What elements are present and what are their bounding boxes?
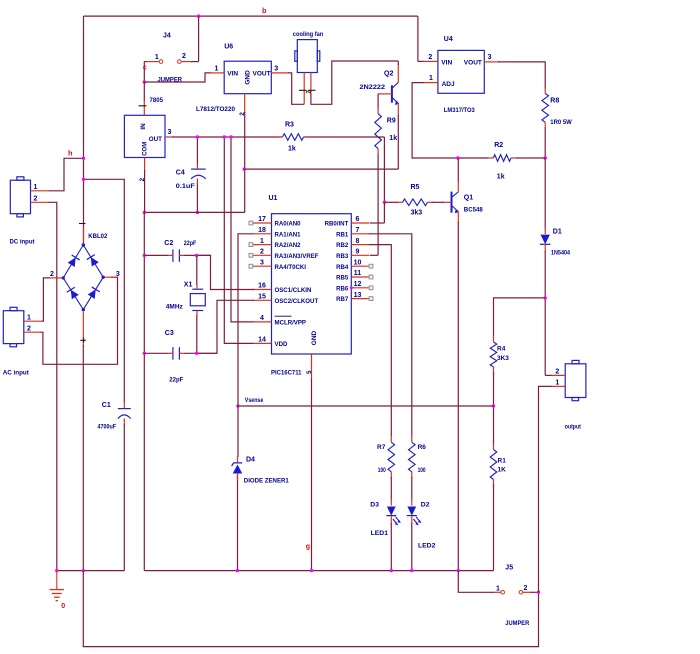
label JUMPER J4 [158, 77, 183, 84]
svg-text:Q1: Q1 [464, 195, 473, 202]
wire 7805 COM down gnd vertical [143, 170, 145, 571]
node junction rail D2 [410, 569, 413, 572]
label R9 [387, 118, 396, 125]
wire DC pin1 to h node [49, 158, 84, 191]
node junction C4 gnd [196, 211, 199, 214]
node junction J4/U6/7805 [143, 80, 146, 83]
pin stub C4 top [196, 163, 198, 169]
label PIC16C711 [271, 370, 302, 377]
pin stub R5 left [397, 201, 402, 203]
pin 6 RB0/INT U1 [325, 216, 370, 227]
resistor R7 [388, 442, 395, 472]
svg-text:GND: GND [311, 330, 318, 345]
wire C4 bottom to gnd link [196, 184, 198, 213]
label DC input [10, 239, 36, 246]
svg-text:Vsense: Vsense [245, 397, 264, 404]
pin stub D2 bottom [411, 516, 413, 524]
label J5 pin 1 [496, 586, 500, 593]
label C4 [176, 169, 185, 176]
svg-text:D4: D4 [246, 456, 255, 463]
svg-text:2: 2 [182, 53, 186, 60]
svg-text:R6: R6 [418, 444, 427, 451]
label R5 value 3k3 [411, 209, 423, 216]
pin stub R4 top [493, 336, 495, 342]
svg-text:COM: COM [143, 142, 149, 156]
label 1N5404 [551, 249, 570, 256]
svg-text:cooling fan: cooling fan [293, 31, 324, 38]
svg-text:1: 1 [260, 238, 264, 245]
pin 14 VDD U1 [253, 337, 288, 348]
led D3 LED1 [386, 507, 401, 526]
svg-text:8: 8 [356, 238, 360, 245]
svg-text:R5: R5 [411, 184, 420, 191]
label 7805 pin 3 [168, 129, 172, 136]
label output pin 1 [555, 380, 559, 387]
node junction C2/X1/OSC1 [195, 254, 198, 257]
pin 18 RA1/AN1 U1 [253, 227, 301, 238]
pin stub U6 pin1 [211, 72, 225, 74]
svg-text:R8: R8 [550, 98, 559, 105]
wire R1 bottom to rail [493, 484, 495, 571]
wire R4 to R1 [493, 372, 495, 445]
node junction Vsense left [236, 404, 239, 407]
svg-text:17: 17 [258, 216, 266, 223]
label bridge pin 3 [116, 271, 120, 278]
diode zener D4 [232, 463, 243, 474]
wire DC pin2 down [49, 202, 57, 570]
wire U4 VIN riser [417, 16, 419, 61]
wire Q2 emitter riser [397, 115, 399, 169]
label R3 value 1k [288, 145, 296, 152]
svg-text:7805: 7805 [150, 97, 164, 104]
svg-text:12: 12 [354, 281, 362, 288]
label DC pin 2 [34, 196, 38, 203]
pin stub R6 top [411, 436, 413, 442]
wire U4 ADJ down to R2 row [412, 83, 458, 158]
wire OSC1 to C2/X1 [195, 255, 254, 289]
label U4 ADJ [442, 81, 455, 88]
pin 3 RA4/T0CKI U1 [249, 259, 306, 270]
node junction VDD rail [223, 135, 226, 138]
label R9 value 1k [389, 135, 397, 142]
label R7 value 100 [378, 467, 386, 474]
regulator U5 7805 box [124, 115, 165, 157]
svg-text:VOUT: VOUT [253, 71, 271, 78]
label R4 value 3K3 [497, 355, 509, 362]
wire R3 to node A riser [383, 137, 385, 202]
pin stub output pin2 [552, 374, 566, 376]
wire MCLR to +5 rail [231, 137, 254, 322]
diode D1 1N5404 [540, 235, 551, 245]
label J5 pin 2 [524, 585, 528, 592]
pin stub bridge top [83, 228, 85, 243]
node junction ADJ/R2/Q1 [456, 156, 459, 159]
pin 9 RB3 U1 [336, 249, 369, 260]
wire Q1 collector riser [457, 158, 459, 182]
pin 15 OSC2/CLKOUT U1 [253, 294, 319, 305]
svg-text:RB2: RB2 [336, 242, 349, 249]
label 7805 OUT [149, 136, 162, 143]
svg-text:2N2222: 2N2222 [360, 84, 386, 91]
svg-text:R3: R3 [285, 122, 294, 129]
resistor R4 [490, 342, 497, 367]
label U6 pin 3 [274, 65, 278, 72]
label Q2 [384, 71, 393, 78]
svg-text:RB7: RB7 [336, 296, 349, 303]
pin stub Q2 base [379, 93, 392, 95]
svg-text:DC input: DC input [10, 239, 36, 246]
node Vsense junction R4/R1 [492, 404, 495, 407]
pin stub C4 bottom [196, 179, 198, 185]
wire Q2 collector riser [397, 61, 399, 65]
resistor R1 [490, 450, 497, 480]
label AC pin 2 [27, 326, 31, 333]
label U6 pin2 rotated [239, 112, 246, 116]
wire J4 pin2 riser [198, 16, 200, 62]
label J4 pin 1 [155, 54, 159, 61]
wire ground rail left segment [57, 570, 125, 572]
svg-text:1: 1 [155, 54, 159, 61]
pin 5 GND U1 [306, 354, 313, 380]
svg-text:RA3/AN3/VREF: RA3/AN3/VREF [275, 253, 319, 260]
pin stub D4 top [237, 457, 239, 463]
pin stub C3 left [168, 352, 173, 354]
pin stub Q1 base [444, 201, 452, 203]
label R2 value 1k [497, 173, 505, 180]
pic U1 box [272, 214, 352, 354]
svg-text:C4: C4 [176, 169, 185, 176]
pin 16 OSC1/CLKIN U1 [253, 283, 312, 294]
svg-text:VIN: VIN [227, 71, 238, 78]
pin stub fan pin2 [310, 73, 312, 96]
pin stub C1 bottom [123, 418, 125, 425]
svg-text:2: 2 [428, 54, 432, 61]
svg-text:2: 2 [524, 585, 528, 592]
pin stub fan pin1 [303, 73, 305, 105]
svg-text:C2: C2 [164, 240, 173, 247]
pin stub Q1 collector [457, 181, 459, 192]
pin stub AC pin2 [24, 331, 41, 333]
label U6 [224, 44, 233, 51]
wire C4 top to rail [196, 137, 198, 164]
label R5 [411, 184, 420, 191]
wire 7805 OUT +5V rail [172, 136, 384, 138]
wire C1 branch [84, 179, 125, 402]
svg-text:1: 1 [429, 75, 433, 82]
pin stub D4 bottom [237, 474, 239, 480]
wire fan pin2 to Q2 collector [311, 61, 398, 104]
pin stub bridge bottom [82, 312, 84, 347]
wire branch to R4 [494, 298, 546, 337]
pin stub D3 bottom [390, 516, 392, 524]
svg-text:output: output [565, 423, 582, 430]
wire D1 to output pin2 [545, 251, 552, 375]
label cooling fan [293, 31, 324, 38]
bridge rectifier KBL02 [62, 243, 105, 311]
label 7805 pin2 rotated [139, 178, 146, 182]
svg-text:OSC2/CLKOUT: OSC2/CLKOUT [275, 298, 319, 305]
label U1 [269, 195, 278, 202]
svg-text:1N5404: 1N5404 [551, 249, 570, 256]
svg-text:4700uF: 4700uF [98, 423, 117, 430]
svg-text:OSC1/CLKIN: OSC1/CLKIN [275, 287, 312, 294]
wire gnd link horizontal [144, 211, 244, 213]
pin stub U6 pin2 GND [244, 94, 246, 113]
label X1 [184, 281, 193, 288]
svg-text:C1: C1 [102, 402, 111, 409]
svg-text:VOUT: VOUT [464, 60, 482, 67]
pin stub D2 top [411, 499, 413, 506]
node junction C3/X1/OSC2 [195, 352, 198, 355]
svg-text:1: 1 [496, 586, 500, 593]
svg-text:U6: U6 [224, 44, 233, 51]
node c [143, 65, 147, 72]
label R7 [377, 444, 386, 451]
capacitor C2 [173, 249, 180, 262]
label LED1 [371, 530, 389, 537]
capacitor C1 4700uF [118, 409, 131, 419]
label C2 [164, 240, 173, 247]
pin stub bridge right [105, 276, 116, 278]
svg-text:U1: U1 [269, 195, 278, 202]
svg-text:KBL02: KBL02 [88, 233, 107, 240]
transistor Q2 [392, 82, 399, 105]
svg-text:10: 10 [354, 259, 362, 266]
label J4 pin 2 [182, 53, 186, 60]
label DIODE ZENER1 [244, 478, 289, 485]
label fan pin marks [299, 90, 316, 94]
svg-text:MCLR/VPP: MCLR/VPP [275, 320, 307, 327]
label 7805 IN [140, 123, 147, 130]
svg-text:9: 9 [356, 249, 360, 256]
wire C3 left [144, 352, 168, 354]
label C3 value 22pF [169, 376, 183, 383]
label KBL02 [88, 233, 107, 240]
label U6 GND rotated [244, 70, 251, 85]
svg-text:h: h [68, 149, 73, 158]
wire J5 branch [458, 571, 495, 593]
label 7805 [150, 97, 164, 104]
pin stub R8 bottom [544, 122, 546, 128]
wire VDD to +5 rail [224, 137, 253, 343]
pin stub R9 top [377, 108, 379, 114]
svg-text:R1: R1 [498, 457, 507, 464]
pin stub 7805 pin2 COM [144, 158, 146, 172]
pin stub Q2 collector [397, 64, 399, 82]
svg-text:3K3: 3K3 [497, 355, 509, 362]
label U1 GND rotated [311, 330, 318, 345]
svg-text:R4: R4 [497, 346, 506, 353]
pin stub R3 right [304, 136, 310, 138]
wire output pin1 riser [539, 386, 553, 592]
svg-text:ADJ: ADJ [442, 81, 455, 88]
label 2N2222 [360, 84, 386, 91]
label J5 name [505, 564, 513, 571]
wire R7 to D3 [390, 477, 392, 500]
label Vsense [245, 397, 264, 404]
wire U4 VOUT to R8 [498, 62, 545, 89]
svg-text:RA4/T0CKI: RA4/T0CKI [275, 264, 307, 271]
node junction rail DC2 [55, 569, 58, 572]
node junction rail J5 [457, 569, 460, 572]
capacitor C3 [173, 347, 180, 360]
transistor Q1 [452, 192, 459, 214]
svg-text:PIC16C711: PIC16C711 [271, 370, 302, 377]
label U4 VIN [441, 60, 452, 67]
svg-text:AC input: AC input [3, 370, 30, 377]
node junction C3 left [143, 352, 146, 355]
label U6 pin 1 [215, 65, 219, 72]
pin 8 RB2 U1 [336, 238, 369, 249]
label LM317/TO3 [444, 107, 475, 114]
cooling fan body [295, 40, 320, 73]
node junction top rail / J4 [197, 14, 200, 17]
svg-text:3: 3 [488, 54, 492, 61]
svg-text:2: 2 [260, 249, 264, 256]
svg-text:L7812/TO220: L7812/TO220 [196, 106, 235, 113]
wire U6 GND down [244, 112, 246, 212]
wire RB1 to R6 [369, 234, 412, 437]
node junction C4 rail [196, 135, 199, 138]
svg-text:3k3: 3k3 [411, 209, 423, 216]
pin stub C2 right [179, 254, 185, 256]
svg-text:R2: R2 [494, 142, 503, 149]
resistor R8 [542, 93, 549, 122]
svg-text:4MHz: 4MHz [166, 303, 184, 310]
svg-text:IN: IN [140, 123, 147, 130]
led D2 LED2 [407, 507, 422, 526]
label 7805 pin1 rotated [139, 105, 147, 107]
label R8 value 1R0 5W [550, 119, 572, 126]
svg-text:c: c [143, 65, 147, 72]
svg-text:OUT: OUT [149, 136, 162, 143]
pin stub U4 pin1 ADJ [423, 82, 438, 84]
svg-text:GND: GND [244, 70, 251, 85]
pin stub U6 pin3 [271, 72, 289, 74]
resistor R5 [403, 199, 428, 206]
svg-text:22pF: 22pF [184, 240, 197, 247]
wire R2 wires [458, 157, 545, 159]
node junction rail PIC gnd [310, 569, 313, 572]
pin stub U4 pin3 VOUT [484, 61, 499, 63]
label C3 [165, 330, 174, 337]
svg-text:D1: D1 [553, 229, 562, 236]
svg-text:100: 100 [418, 467, 426, 474]
svg-text:RA1/AN1: RA1/AN1 [275, 231, 302, 238]
node 0 ground label [61, 603, 65, 610]
wire C2 right to X1 [185, 254, 211, 256]
label bridge pin1 rotated [79, 223, 86, 225]
node A junction R3/R5/RB0 [383, 201, 386, 204]
wire Q1 emitter down [457, 222, 459, 571]
label U4 VOUT [464, 60, 482, 67]
node junction C2 left [143, 254, 146, 257]
svg-text:RB3: RB3 [336, 253, 349, 260]
label bridge pin4 rotated [80, 338, 86, 343]
pin stub D1 top [544, 228, 546, 234]
wire AC pin1 to bridge pin2 [42, 278, 51, 321]
connector output [565, 360, 586, 400]
svg-text:LED1: LED1 [371, 530, 389, 537]
pin stub bridge left [50, 277, 62, 279]
label R3 [285, 122, 294, 129]
pin 10 RB4 U1 [336, 259, 373, 270]
svg-text:VDD: VDD [275, 341, 288, 348]
svg-text:1: 1 [34, 184, 38, 191]
svg-text:1k: 1k [497, 173, 505, 180]
pin stub R7 bottom [390, 472, 392, 478]
wire left +V riser to bridge [83, 16, 85, 243]
node junction MCLR rail [229, 135, 232, 138]
svg-text:RA0/AN0: RA0/AN0 [275, 221, 302, 228]
wire OSC2 to C3/X1 [195, 300, 254, 353]
svg-text:14: 14 [258, 337, 266, 344]
svg-text:7: 7 [356, 227, 360, 234]
pin stub output pin1 [552, 385, 566, 387]
pin stub DC pin1 [31, 190, 50, 192]
pin stub R2 right [511, 157, 517, 159]
svg-text:16: 16 [258, 283, 266, 290]
svg-text:4: 4 [260, 315, 264, 322]
wire X1 bottom riser [196, 315, 198, 353]
label U4 [444, 36, 453, 43]
resistor R3 [283, 134, 304, 141]
node h [68, 149, 73, 158]
pin stub R9 bottom [377, 149, 379, 155]
wire Vsense horizontal [238, 405, 494, 407]
wire node B to D1 [544, 158, 546, 229]
label DC pin 1 [34, 184, 38, 191]
pin 17 RA0/AN0 U1 [249, 216, 301, 227]
svg-text:3: 3 [168, 129, 172, 136]
pin 13 RB7 U1 [336, 292, 373, 303]
regulator U6 L7812 box [224, 61, 271, 93]
label output pin 2 [555, 368, 559, 375]
svg-text:2: 2 [555, 368, 559, 375]
svg-text:1: 1 [27, 314, 31, 321]
svg-text:15: 15 [258, 294, 266, 301]
svg-text:BC548: BC548 [464, 207, 483, 214]
label C1 [102, 402, 111, 409]
pin stub Q1 emitter [457, 212, 459, 223]
label R2 [494, 142, 503, 149]
label D2 [421, 501, 430, 508]
crystal X1 [190, 289, 205, 310]
resistor R2 [493, 155, 511, 162]
wire Q2 base to R9 [378, 94, 379, 109]
pin stub X1 top [196, 285, 198, 290]
svg-text:0.1uF: 0.1uF [176, 183, 195, 190]
capacitor C4 [191, 169, 206, 179]
svg-text:LM317/TO3: LM317/TO3 [444, 107, 475, 114]
svg-text:3: 3 [274, 65, 278, 72]
node junction D1/R4 branch [544, 296, 547, 299]
pin 4 MCLR/VPP U1 [253, 315, 306, 326]
svg-text:1R0 5W: 1R0 5W [550, 119, 572, 126]
svg-text:1: 1 [555, 380, 559, 387]
pin 1 RA2/AN2 U1 [249, 238, 301, 249]
wire R9 to PIC RB3 [370, 154, 378, 255]
svg-text:RB5: RB5 [336, 275, 349, 282]
wire D4 riser [237, 406, 240, 571]
svg-text:1: 1 [215, 65, 219, 72]
svg-text:100: 100 [378, 467, 386, 474]
pin stub R3 left [277, 136, 283, 138]
svg-text:18: 18 [258, 227, 266, 234]
pin stub R6 bottom [411, 472, 413, 478]
pin stub R5 right [428, 201, 433, 203]
pin stub Q2 emitter [397, 103, 399, 116]
